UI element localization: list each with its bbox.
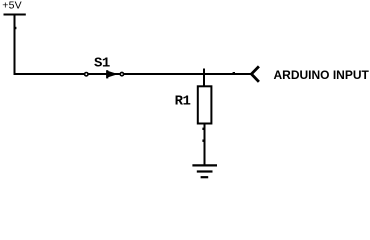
svg-text:R1: R1 [175, 94, 191, 110]
power rail bar +5V [4, 14, 26, 16]
connector arrow ARDUINO INPUT [251, 66, 259, 81]
pin tick on +5V wire [15, 27, 16, 29]
pin tick on resistor lower wire [202, 128, 203, 130]
svg-text:+5V: +5V [2, 0, 22, 12]
node junction to resistor [203, 69, 205, 88]
resistor R1 body [198, 86, 212, 123]
svg-text:ARDUINO INPUT: ARDUINO INPUT [274, 68, 370, 82]
switch S1 right contact [120, 72, 123, 75]
wire resistor to ground [204, 123, 206, 166]
connection tick on wire [233, 72, 235, 73]
svg-text:S1: S1 [94, 55, 110, 71]
pin tick on ground wire [202, 140, 203, 142]
wire vertical from +5V rail [14, 15, 16, 76]
ground [192, 165, 217, 177]
switch S1 actuator arrow [107, 70, 118, 78]
wire horizontal main net [14, 73, 252, 75]
switch S1 left contact [85, 73, 88, 76]
